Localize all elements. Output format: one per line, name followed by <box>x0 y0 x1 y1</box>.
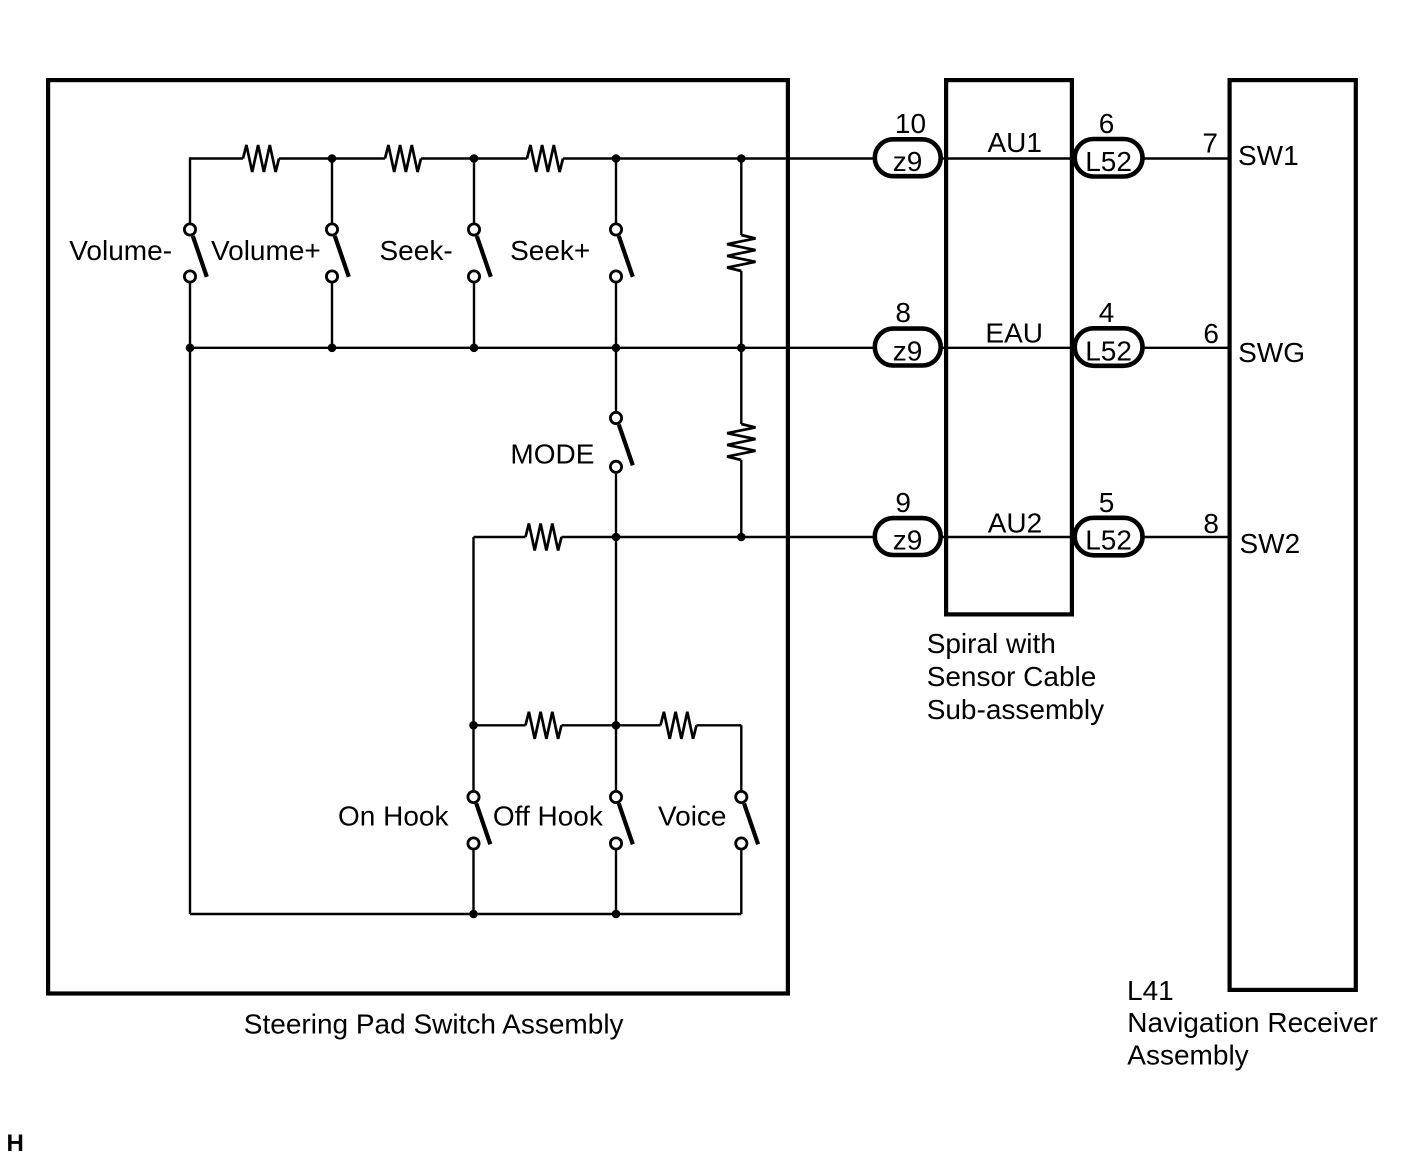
resistor R7 lower row left <box>526 712 562 739</box>
svg-text:z9: z9 <box>893 335 923 366</box>
wire vertical Volume+ branch <box>331 159 333 348</box>
svg-text:6: 6 <box>1099 108 1115 139</box>
switch Voice <box>736 791 758 849</box>
wire row3 AU2/SW2 net <box>474 536 1230 538</box>
svg-text:9: 9 <box>895 487 911 518</box>
svg-text:6: 6 <box>1203 318 1219 349</box>
svg-text:4: 4 <box>1099 297 1115 328</box>
box Spiral with Sensor Cable Sub-assembly <box>946 80 1072 614</box>
label L41 Navigation Receiver Assembly <box>1127 975 1378 1071</box>
wire vertical Seek+ / MODE / Off Hook branch <box>615 159 617 915</box>
resistor R8 lower row right <box>661 712 697 739</box>
svg-text:Voice: Voice <box>658 801 727 832</box>
svg-text:On Hook: On Hook <box>338 801 449 832</box>
resistor R1 row1 <box>243 145 279 172</box>
svg-text:z9: z9 <box>893 525 923 556</box>
svg-text:H: H <box>7 1130 24 1157</box>
switch Off Hook <box>610 791 632 849</box>
svg-text:Sub-assembly: Sub-assembly <box>927 694 1104 725</box>
connector L52 pin 5 row3 <box>1075 487 1143 556</box>
svg-text:SWG: SWG <box>1238 337 1305 368</box>
box Steering Pad Switch Assembly <box>48 80 788 993</box>
wire vertical Volume- branch <box>189 157 191 914</box>
svg-text:Volume-: Volume- <box>69 235 172 266</box>
connector z9 pin 10 row1 <box>875 108 941 177</box>
wire bottom return net <box>190 913 741 915</box>
svg-text:5: 5 <box>1099 487 1115 518</box>
resistor R4 vertical upper <box>727 235 755 271</box>
svg-text:L41: L41 <box>1127 975 1174 1006</box>
switch MODE <box>610 412 632 472</box>
svg-text:Seek+: Seek+ <box>510 235 590 266</box>
svg-text:8: 8 <box>895 297 911 328</box>
svg-text:Assembly: Assembly <box>1127 1040 1248 1071</box>
svg-text:Volume+: Volume+ <box>211 235 321 266</box>
resistor R3 row1 <box>527 145 563 172</box>
svg-text:Spiral with: Spiral with <box>927 628 1056 659</box>
svg-text:SW2: SW2 <box>1240 528 1301 559</box>
box L41 Navigation Receiver Assembly <box>1230 80 1356 990</box>
resistor R2 row1 <box>385 145 421 172</box>
svg-text:MODE: MODE <box>510 439 594 470</box>
wire vertical On Hook branch <box>472 537 474 914</box>
wire lower horizontal net <box>474 724 742 726</box>
svg-text:L52: L52 <box>1085 525 1132 556</box>
resistor R6 row3 <box>526 524 562 551</box>
svg-text:Seek-: Seek- <box>380 235 453 266</box>
svg-text:L52: L52 <box>1085 146 1132 177</box>
switch Volume- <box>184 224 206 282</box>
svg-text:Sensor Cable: Sensor Cable <box>927 661 1097 692</box>
junction dots row1 <box>328 154 746 163</box>
wire vertical Voice branch <box>740 725 742 914</box>
connector L52 pin 4 row2 <box>1075 297 1143 366</box>
svg-text:L52: L52 <box>1085 335 1132 366</box>
switch Seek- <box>468 224 490 282</box>
wire row1 AU1/SW1 net <box>190 157 1230 159</box>
junction dots bottom wire <box>469 910 620 919</box>
svg-text:AU1: AU1 <box>988 127 1042 158</box>
connector z9 pin 9 row3 <box>875 487 941 556</box>
svg-text:Steering Pad Switch Assembly: Steering Pad Switch Assembly <box>244 1009 624 1040</box>
svg-text:Navigation Receiver: Navigation Receiver <box>1127 1007 1378 1038</box>
svg-text:z9: z9 <box>893 146 923 177</box>
svg-text:SW1: SW1 <box>1238 140 1299 171</box>
junction dots row3 <box>612 533 746 542</box>
junction dots lower row <box>469 721 620 730</box>
svg-text:EAU: EAU <box>985 318 1043 349</box>
junction dots row2 <box>186 344 746 353</box>
wire row2 EAU/SWG net <box>190 347 1230 349</box>
svg-text:7: 7 <box>1202 128 1218 159</box>
svg-text:Off Hook: Off Hook <box>493 801 604 832</box>
svg-text:10: 10 <box>895 108 926 139</box>
svg-text:8: 8 <box>1203 508 1219 539</box>
switch Seek+ <box>610 224 632 282</box>
wire vertical Seek- branch <box>473 159 475 348</box>
connector z9 pin 8 row2 <box>875 297 941 366</box>
connector L52 pin 6 row1 <box>1075 108 1143 177</box>
switch On Hook <box>468 791 490 849</box>
switch Volume+ <box>326 224 348 282</box>
label Spiral with Sensor Cable Sub-assembly <box>927 628 1104 725</box>
wire vertical resistor column <box>740 159 742 538</box>
svg-text:AU2: AU2 <box>988 508 1042 539</box>
resistor R5 vertical lower <box>727 424 755 460</box>
